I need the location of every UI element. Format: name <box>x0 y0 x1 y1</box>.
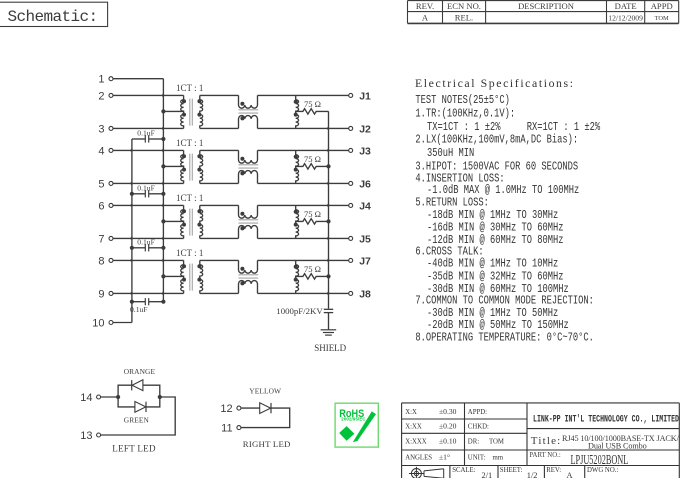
wire crossing mark <box>327 127 330 130</box>
wire T3 secondary top to choke <box>200 204 239 206</box>
wire crossing mark <box>327 292 330 295</box>
svg-text:±0.20: ±0.20 <box>439 422 457 431</box>
wire crossing mark <box>131 204 134 207</box>
transformer T1 secondary polarity dots <box>197 99 201 116</box>
choke L2 core <box>239 165 259 168</box>
svg-text:13: 13 <box>80 430 92 442</box>
revision table frame <box>408 1 679 24</box>
svg-text:11: 11 <box>221 422 232 434</box>
ground symbol SHIELD <box>321 330 337 335</box>
svg-text:Dual USB Combo: Dual USB Combo <box>588 442 647 451</box>
wire diode D3 to pin11 <box>241 408 290 428</box>
wire pin14 to LED pair <box>101 396 119 398</box>
svg-text:±1°: ±1° <box>439 453 450 462</box>
pin 1 terminal <box>98 74 113 86</box>
wire crossing mark <box>327 204 330 207</box>
svg-text:ECN NO.: ECN NO. <box>447 1 481 11</box>
svg-text:1000pF/2KV: 1000pF/2KV <box>276 306 323 316</box>
RoHS logo checkmark long arm <box>353 411 376 442</box>
diode D3 YELLOW <box>260 403 271 414</box>
Schematic: title box <box>0 2 108 26</box>
svg-text:RIGHT LED: RIGHT LED <box>243 439 291 449</box>
svg-text:TOM: TOM <box>655 15 669 22</box>
transformer T2 primary polarity dots <box>182 154 186 171</box>
wire crossing mark <box>131 259 134 262</box>
svg-text:X:X: X:X <box>405 409 417 416</box>
capacitor C1 0.1uF <box>132 135 164 142</box>
junction R4 output on shield bus <box>326 274 330 278</box>
svg-text:Electrical Specifications:: Electrical Specifications: <box>415 76 573 90</box>
transformer T4 core <box>190 264 193 291</box>
svg-text:12: 12 <box>220 403 232 415</box>
junction R2 output on shield bus <box>326 164 330 168</box>
choke L4 top winding <box>239 260 258 273</box>
junction R3 output on shield bus <box>326 219 330 223</box>
svg-text:REV:: REV: <box>546 467 561 474</box>
center-tap bus (vertical) <box>162 79 164 302</box>
wire crossing mark <box>162 127 165 130</box>
RoHS logo box <box>335 403 378 447</box>
wire pin7 to T3 primary bottom <box>113 237 184 239</box>
svg-text:LINK-PP INT'L TECHNOLOGY CO.,: LINK-PP INT'L TECHNOLOGY CO., LIMITED <box>533 413 679 424</box>
svg-text:1: 1 <box>98 74 104 86</box>
choke L1 top winding <box>239 95 258 108</box>
wire pin3 to T1 primary bottom <box>113 127 184 129</box>
svg-text:75 Ω: 75 Ω <box>304 154 321 164</box>
pin 12 terminal <box>220 403 241 415</box>
svg-text:6: 6 <box>98 200 104 212</box>
wire T4 primary center tap <box>163 275 183 277</box>
wire T4 secondary top to choke <box>200 259 239 261</box>
svg-text:75 Ω: 75 Ω <box>304 209 321 219</box>
choke L3 core <box>239 220 259 223</box>
shield bus (vertical) <box>328 111 330 308</box>
pin 8 terminal <box>98 255 113 267</box>
svg-text:SHEET:: SHEET: <box>500 467 523 474</box>
test notes text block <box>415 93 600 344</box>
svg-text:A: A <box>567 471 573 478</box>
wire crossing mark <box>162 149 165 152</box>
pin 6 terminal <box>98 200 113 212</box>
wire pin1 to center-tap bus <box>113 78 163 80</box>
rev cell <box>546 467 572 478</box>
transformer T1 primary polarity dots <box>182 99 186 116</box>
termination coil ch1 polarity dots <box>294 100 298 117</box>
capacitor bus (vertical) <box>131 139 133 323</box>
pin 3 terminal <box>98 123 113 135</box>
wire crossing mark <box>162 292 165 295</box>
svg-text:YELLOW: YELLOW <box>249 387 281 396</box>
svg-text:1/2: 1/2 <box>527 471 538 478</box>
pin J7 terminal <box>349 255 371 267</box>
wire pin9 to T4 primary bottom <box>113 292 184 294</box>
svg-text:A: A <box>422 13 429 23</box>
choke L2 polarity dots <box>240 157 244 176</box>
junction C3 right <box>161 246 165 250</box>
svg-text:12/12/2009: 12/12/2009 <box>608 13 643 22</box>
junction C2 left <box>130 192 134 196</box>
choke L3 polarity dots <box>240 212 244 231</box>
choke L2 bottom winding <box>239 171 258 184</box>
pin J6 terminal <box>349 178 371 190</box>
wire choke to J line bottom ch1 <box>258 127 349 129</box>
scale cell <box>452 467 492 478</box>
svg-text:1CT : 1: 1CT : 1 <box>176 83 203 93</box>
svg-text:J8: J8 <box>359 288 371 300</box>
choke L2 top winding <box>239 150 258 163</box>
wire pin6 to T3 primary top <box>113 204 184 206</box>
pin 14 terminal <box>80 392 100 404</box>
choke L3 bottom winding <box>239 226 258 239</box>
transformer T3 primary polarity dots <box>182 209 186 226</box>
LED pair loop wires <box>118 385 160 407</box>
wire choke to J line top ch4 <box>258 259 349 261</box>
pin J3 terminal <box>349 145 371 157</box>
transformer T1 core <box>190 99 193 126</box>
junction T2 center tap on bus <box>161 164 165 168</box>
svg-text:75 Ω: 75 Ω <box>304 99 321 109</box>
svg-text:ORANGE: ORANGE <box>124 367 156 376</box>
junction C2 right <box>161 192 165 196</box>
svg-text:GREEN: GREEN <box>124 415 150 424</box>
svg-text:LPJU5202BONL: LPJU5202BONL <box>571 452 629 467</box>
wire LED pair to pin13 <box>101 397 176 435</box>
transformer T2 secondary polarity dots <box>197 154 201 171</box>
svg-text:J7: J7 <box>359 255 371 267</box>
pin J2 terminal <box>349 123 371 135</box>
svg-text:8.OPERATING TEMPERATURE: 0°C~7: 8.OPERATING TEMPERATURE: 0°C~70°C. <box>415 330 594 344</box>
wire crossing mark <box>327 149 330 152</box>
choke L4 polarity dots <box>240 267 244 286</box>
wire T2 primary center tap <box>163 165 183 167</box>
wire T1 secondary bottom to choke <box>200 127 239 129</box>
svg-text:LEFT LED: LEFT LED <box>112 444 156 454</box>
svg-text:±0.30: ±0.30 <box>439 407 457 416</box>
choke L1 polarity dots <box>240 102 244 121</box>
transformer T4 secondary polarity dots <box>197 264 201 281</box>
junction C1 right <box>161 137 165 141</box>
transformer T4 primary polarity dots <box>182 264 186 281</box>
resistor R2 75 Ohm <box>296 164 329 169</box>
svg-text:2002/95/EC: 2002/95/EC <box>341 416 366 421</box>
pin 9 terminal <box>98 288 113 300</box>
svg-text:X:XXX: X:XXX <box>405 439 427 446</box>
junction T4 center tap on bus <box>161 274 165 278</box>
projection symbol <box>409 467 444 478</box>
wire choke to J line top ch2 <box>258 149 349 151</box>
svg-text:TOM: TOM <box>489 439 504 446</box>
svg-text:UNIT:: UNIT: <box>468 455 486 462</box>
diode D2 GREEN <box>135 402 146 413</box>
junction T1 center tap on bus <box>161 109 165 113</box>
svg-text:PART NO.:: PART NO.: <box>529 452 560 459</box>
transformer T4 primary winding <box>181 260 184 293</box>
transformer T3 secondary winding <box>200 205 203 238</box>
wire crossing mark <box>162 204 165 207</box>
choke L3 top winding <box>239 205 258 218</box>
wire choke to J line top ch3 <box>258 204 349 206</box>
pin 11 terminal <box>221 422 241 434</box>
wire crossing mark <box>162 94 165 97</box>
wire pin8 to T4 primary top <box>113 259 184 261</box>
wire T1 secondary top to choke <box>200 94 239 96</box>
wire choke to J line bottom ch4 <box>258 292 349 294</box>
transformer T3 secondary polarity dots <box>197 209 201 226</box>
svg-text:2/1: 2/1 <box>482 471 493 478</box>
svg-text:10: 10 <box>92 317 104 329</box>
svg-text:2: 2 <box>98 90 104 102</box>
transformer T3 primary winding <box>181 205 184 238</box>
wire pin4 to T2 primary top <box>113 149 184 151</box>
termination coil ch1 <box>296 95 299 128</box>
resistor R1 75 Ohm <box>296 109 329 114</box>
svg-text:J4: J4 <box>359 200 371 212</box>
resistor R3 75 Ohm <box>296 219 329 224</box>
svg-text:J3: J3 <box>359 145 371 157</box>
svg-text:8: 8 <box>98 255 104 267</box>
sheet cell <box>500 467 538 478</box>
wire pin12 to diode D3 <box>241 407 260 409</box>
svg-text:4: 4 <box>98 145 104 157</box>
svg-text:DR:: DR: <box>468 439 479 446</box>
transformer T2 primary winding <box>181 150 184 183</box>
wire T1 primary center tap <box>163 110 183 112</box>
termination coil ch3 polarity dots <box>294 210 298 227</box>
pin J1 terminal <box>349 90 371 102</box>
capacitor C2 0.1uF <box>132 190 164 197</box>
wire T4 secondary bottom to choke <box>200 292 239 294</box>
pin 13 terminal <box>80 430 100 442</box>
wire crossing mark <box>131 149 134 152</box>
RoHS logo checkmark <box>339 426 354 441</box>
svg-text:0.1uF: 0.1uF <box>137 129 155 138</box>
svg-text:75 Ω: 75 Ω <box>304 264 321 274</box>
svg-text:DWG NO.:: DWG NO.: <box>587 467 618 474</box>
junction C4 left <box>130 300 134 304</box>
wire crossing mark <box>162 237 165 240</box>
pin 5 terminal <box>98 178 113 190</box>
transformer T1 primary winding <box>181 95 184 128</box>
wire crossing mark <box>327 237 330 240</box>
transformer T1 secondary winding <box>200 95 203 128</box>
choke L1 core <box>239 110 259 113</box>
svg-text:CHKD:: CHKD: <box>468 424 489 431</box>
junction C4 right <box>161 300 165 304</box>
svg-text:J5: J5 <box>359 233 371 245</box>
pin 4 terminal <box>98 145 113 157</box>
termination coil ch4 polarity dots <box>294 265 298 282</box>
pin 10 terminal <box>92 317 113 329</box>
svg-text:3: 3 <box>98 123 104 135</box>
svg-text:0.1uF: 0.1uF <box>130 305 148 314</box>
transformer T2 secondary winding <box>200 150 203 183</box>
RoHS logo text <box>339 408 364 420</box>
wire crossing mark <box>131 292 134 295</box>
svg-text:APPD:: APPD: <box>468 409 487 416</box>
tolerance table text <box>405 407 504 462</box>
termination coil ch4 <box>296 260 299 293</box>
wire crossing mark <box>131 182 134 185</box>
termination coil ch2 polarity dots <box>294 155 298 172</box>
svg-text:mm: mm <box>493 455 504 462</box>
svg-text:TEST NOTES(25±5°C): TEST NOTES(25±5°C) <box>415 93 510 107</box>
svg-text:J6: J6 <box>359 178 371 190</box>
transformer T2 core <box>190 154 193 181</box>
pin J4 terminal <box>349 200 371 212</box>
junction C3 left <box>130 246 134 250</box>
junction T3 center tap on bus <box>161 219 165 223</box>
wire T2 secondary top to choke <box>200 149 239 151</box>
svg-text:5: 5 <box>98 178 104 190</box>
wire crossing mark <box>162 182 165 185</box>
svg-text:DESCRIPTION: DESCRIPTION <box>518 1 575 11</box>
svg-text:Title:: Title: <box>531 435 562 447</box>
termination coil ch2 <box>296 150 299 183</box>
termination coil ch3 <box>296 205 299 238</box>
pin J5 terminal <box>349 233 371 245</box>
svg-text:SHIELD: SHIELD <box>314 343 346 353</box>
wire pin5 to T2 primary bottom <box>113 182 184 184</box>
svg-text:14: 14 <box>80 392 92 404</box>
svg-text:1CT : 1: 1CT : 1 <box>176 138 203 148</box>
capacitor C3 0.1uF <box>132 244 164 251</box>
resistor R4 75 Ohm <box>296 274 329 279</box>
svg-text:DATE: DATE <box>615 1 637 11</box>
svg-text:APPD: APPD <box>651 1 673 11</box>
wire T2 secondary bottom to choke <box>200 182 239 184</box>
wire crossing mark <box>162 259 165 262</box>
svg-text:REL.: REL. <box>455 13 473 23</box>
title block frame <box>402 403 680 478</box>
wire crossing mark <box>131 237 134 240</box>
svg-text:X:XX: X:XX <box>405 424 422 431</box>
svg-text:9: 9 <box>98 288 104 300</box>
wire crossing mark <box>327 182 330 185</box>
svg-text:SCALE:: SCALE: <box>452 467 476 474</box>
transformer T4 secondary winding <box>200 260 203 293</box>
wire pin2 to T1 primary top <box>113 94 184 96</box>
diode D1 ORANGE <box>132 380 143 391</box>
pin 7 terminal <box>98 233 113 245</box>
junction LED right <box>158 395 162 399</box>
svg-text:0.1uF: 0.1uF <box>137 184 155 193</box>
svg-text:1CT : 1: 1CT : 1 <box>176 193 203 203</box>
svg-text:2.LX(100KHz,100mV,8mA,DC Bias): 2.LX(100KHz,100mV,8mA,DC Bias): <box>415 133 578 147</box>
svg-text:1.TR:(100KHz,0.1V):: 1.TR:(100KHz,0.1V): <box>415 106 515 120</box>
capacitor C5 1000pF/2KV <box>324 309 333 330</box>
transformer T3 core <box>190 209 193 236</box>
wire pin10 to capacitor bus <box>113 322 132 324</box>
svg-text:ANGLES: ANGLES <box>405 455 432 462</box>
wire T3 primary center tap <box>163 220 183 222</box>
svg-text:J1: J1 <box>359 90 371 102</box>
svg-text:1CT : 1: 1CT : 1 <box>176 248 203 258</box>
svg-text:Schematic:: Schematic: <box>8 8 98 26</box>
svg-text:REV.: REV. <box>416 1 434 11</box>
wire choke to J line bottom ch3 <box>258 237 349 239</box>
svg-text:350uH MIN: 350uH MIN <box>427 146 474 160</box>
wire T3 secondary bottom to choke <box>200 237 239 239</box>
choke L1 bottom winding <box>239 116 258 129</box>
pin 2 terminal <box>98 90 113 102</box>
svg-text:J2: J2 <box>359 123 371 135</box>
svg-text:±0.10: ±0.10 <box>439 437 457 446</box>
wire choke to J line bottom ch2 <box>258 182 349 184</box>
revision table row A REL 12/12/2009 TOM <box>422 13 669 23</box>
capacitor C4 0.1uF <box>132 298 164 305</box>
wire crossing mark <box>327 259 330 262</box>
svg-text:7: 7 <box>98 233 104 245</box>
choke L4 core <box>239 275 259 278</box>
svg-text:0.1uF: 0.1uF <box>137 238 155 247</box>
junction LED left <box>116 395 120 399</box>
wire choke to J line top ch1 <box>258 94 349 96</box>
revision table header text <box>416 1 673 11</box>
pin J8 terminal <box>349 288 371 300</box>
choke L4 bottom winding <box>239 281 258 294</box>
